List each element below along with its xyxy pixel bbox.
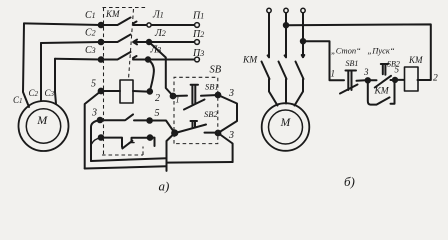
svg-text:C2: C2 <box>85 28 96 39</box>
svg-text:SВ1: SВ1 <box>205 82 219 92</box>
wire L1 to terminal P1 <box>151 24 194 26</box>
svg-text:C1: C1 <box>85 10 96 21</box>
wire b) line 2 drop <box>285 13 287 57</box>
svg-text:2: 2 <box>433 74 438 84</box>
wire L2 tap to node 1 <box>149 42 173 96</box>
svg-text:М: М <box>36 113 48 127</box>
wire b) tap phase3 to SB1 <box>303 41 344 80</box>
svg-text:SВ2: SВ2 <box>204 109 218 119</box>
wire thermal left connector <box>92 138 102 144</box>
wire thermal right stub <box>150 138 155 146</box>
svg-text:5: 5 <box>395 65 400 75</box>
node L2 junction <box>147 40 151 44</box>
wire coil right lead <box>133 90 148 93</box>
wire L2 left drop to motor <box>40 43 42 101</box>
svg-text:„Стоп“: „Стоп“ <box>331 46 361 56</box>
node C1 <box>99 23 104 28</box>
wire node1 to SB1 <box>173 95 187 97</box>
svg-text:C2: C2 <box>29 88 39 98</box>
junction node 5 net <box>172 130 177 135</box>
terminal P2 <box>195 40 200 45</box>
node C2 <box>99 40 104 45</box>
svg-text:КМ: КМ <box>408 55 423 65</box>
svg-text:3: 3 <box>91 108 97 119</box>
svg-text:SВ1: SВ1 <box>346 59 359 68</box>
wire b) line 1 drop <box>268 13 270 57</box>
contactor KM b) blade 1 <box>262 55 278 105</box>
svg-text:Л2: Л2 <box>154 28 166 39</box>
wire node5 down-left to outer bottom rail <box>85 91 101 169</box>
svg-text:КМ: КМ <box>374 87 390 97</box>
pushbutton SB2 start b) <box>370 64 393 88</box>
motor M b) outer circle <box>262 103 310 151</box>
wire aux left bend down to inner rail <box>91 120 100 161</box>
aux contact KM b) holding loop <box>368 80 395 105</box>
contactor KM main contact 2 blade <box>118 35 148 45</box>
wire b) tap phase2 to right rail <box>286 24 431 80</box>
dashed button box SB a) <box>174 77 218 143</box>
terminal P1 <box>195 23 200 28</box>
node 5 b) <box>393 78 397 82</box>
wire L1 phase a) left segment <box>24 23 117 25</box>
node 1 <box>171 94 176 99</box>
contactor KM main contact 1 blade <box>118 18 148 26</box>
wire right leg to SB2 right <box>218 133 233 162</box>
svg-text:3: 3 <box>228 88 234 99</box>
dashed starter enclosure right stub <box>142 147 144 156</box>
contactor KM main contact 3 blade <box>118 52 147 60</box>
wire inner bottom rail <box>91 158 167 161</box>
node 3 b) <box>366 78 370 82</box>
svg-text:C1: C1 <box>13 95 23 105</box>
terminal b) line2 <box>284 8 288 12</box>
terminal b) line1 <box>267 8 271 12</box>
motor M a) inner circle <box>26 109 60 143</box>
aux contact KM 3-5 row <box>100 114 148 120</box>
wire L3 left drop to motor <box>55 59 56 104</box>
coil KM a) <box>120 80 133 103</box>
node thermal left <box>99 135 104 140</box>
svg-text:C3: C3 <box>85 45 96 56</box>
pushbutton SB2 start a) <box>177 121 216 133</box>
thermal relay contact KK <box>101 138 148 149</box>
node L1 <box>147 23 151 27</box>
svg-text:C3: C3 <box>45 88 55 98</box>
svg-text:3: 3 <box>228 130 234 141</box>
pushbutton SB1 stop b) <box>340 71 366 94</box>
wire L1 left drop to motor <box>23 23 29 107</box>
svg-text:П2: П2 <box>192 29 204 40</box>
node thermal right <box>148 135 153 140</box>
terminal P3 <box>195 57 200 62</box>
svg-text:а): а) <box>159 178 170 193</box>
motor M b) inner circle <box>269 110 303 144</box>
wire b) line 3 drop <box>302 13 304 57</box>
node b) tap phase2 <box>284 23 288 27</box>
svg-text:Л1: Л1 <box>152 10 164 21</box>
wire L3 tap to node 2 <box>148 60 154 92</box>
wire L3 phase a) left segment <box>55 58 117 61</box>
dashed KM bracket top <box>103 7 147 9</box>
dashed starter enclosure bottom edge <box>102 154 143 156</box>
dashed frames <box>102 8 218 156</box>
coil KM b) <box>405 67 419 91</box>
svg-text:П1: П1 <box>192 11 204 22</box>
terminal b) line3 <box>301 8 305 12</box>
svg-text:КМ: КМ <box>242 56 258 66</box>
thermal relay tick <box>129 142 134 144</box>
wire node5 to coil <box>395 79 404 81</box>
wire aux right bend to junction <box>150 121 175 134</box>
node 2 coil right <box>148 89 153 94</box>
wire L2 phase a) left segment <box>41 42 117 43</box>
wire L3 to terminal P3 <box>150 59 194 61</box>
svg-text:б): б) <box>344 174 355 189</box>
svg-text:Л3: Л3 <box>150 45 162 56</box>
node L3 junction <box>146 57 150 61</box>
svg-text:П3: П3 <box>192 48 204 59</box>
node C3 <box>99 57 104 62</box>
wire coil left lead <box>103 90 120 92</box>
svg-text:3: 3 <box>363 67 369 77</box>
node 5 coil left <box>99 89 104 94</box>
svg-text:1: 1 <box>331 68 336 78</box>
node 3 SB2 right <box>216 131 221 136</box>
contactor KM b) blade 3 <box>295 55 305 106</box>
svg-text:2: 2 <box>155 93 160 104</box>
svg-text:5: 5 <box>91 79 96 90</box>
dashed mechanical link through main contacts <box>129 9 134 79</box>
wire bracket node3 top to bottom <box>218 95 237 133</box>
node 5 aux right <box>147 118 152 123</box>
node 3 SB1 right <box>216 93 221 98</box>
svg-text:5: 5 <box>155 108 160 119</box>
svg-text:1: 1 <box>176 96 180 105</box>
svg-text:КМ: КМ <box>105 9 120 19</box>
wire bottom rail right section <box>167 161 233 164</box>
pushbutton SB1 stop a) <box>184 85 218 110</box>
wire junction leg down <box>167 133 175 171</box>
dashed starter enclosure left edge + KM bracket <box>103 8 105 156</box>
svg-text:М: М <box>280 117 292 129</box>
svg-text:„Пуск“: „Пуск“ <box>368 46 395 56</box>
node 3 aux left <box>98 118 103 123</box>
contactor KM b) blade 2 <box>279 55 287 103</box>
wire outer bottom rail <box>85 166 167 168</box>
wire L2 to terminal P2 <box>151 41 194 43</box>
node b) tap phase3 <box>301 39 305 43</box>
svg-text:SВ: SВ <box>210 65 222 76</box>
motor M a) outer circle <box>19 101 69 151</box>
